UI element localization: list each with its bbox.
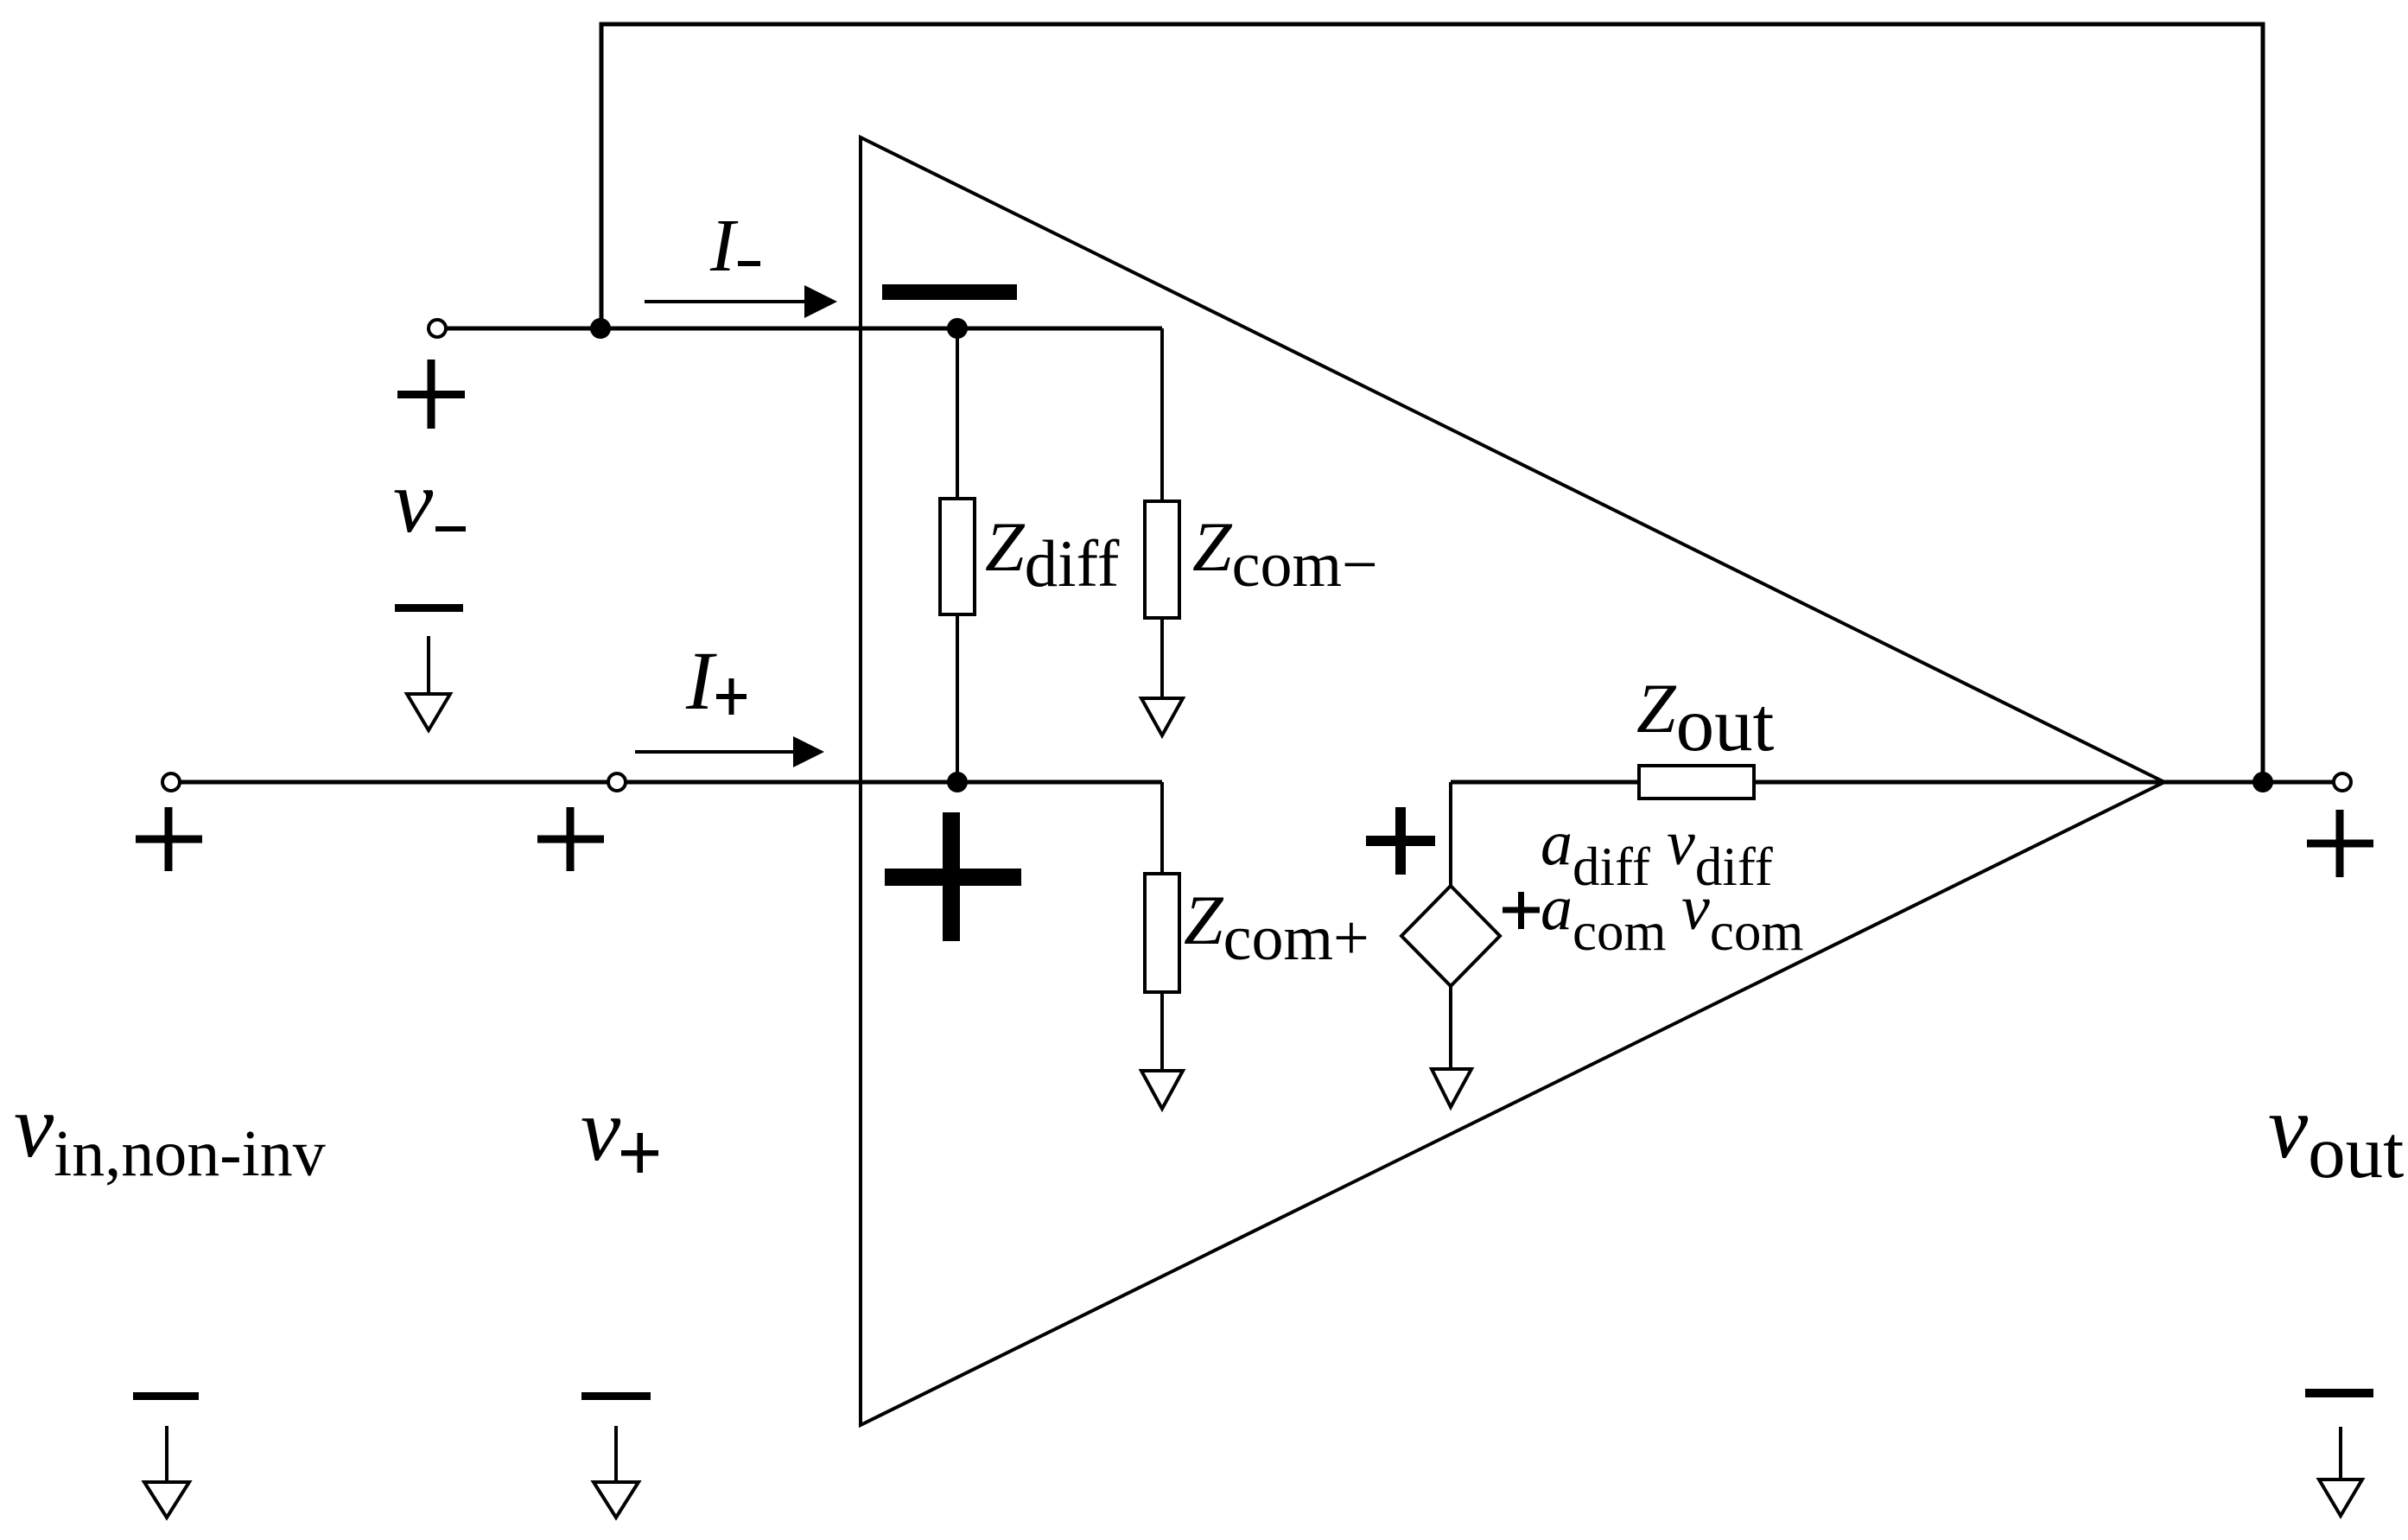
svg-text:I: I [685, 634, 717, 727]
svg-text:I: I [709, 203, 739, 287]
svg-text:v: v [581, 1080, 621, 1180]
svg-text:v: v [393, 452, 434, 551]
